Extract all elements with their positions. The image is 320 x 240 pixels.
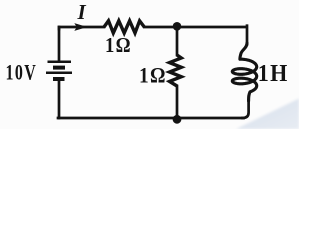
battery V1 long plate 1	[48, 60, 72, 63]
resistor R2 vertical 1ohm zigzag	[170, 55, 182, 86]
svg-text:1Ω: 1Ω	[139, 62, 167, 88]
junction node bottom	[173, 115, 182, 124]
svg-text:10V: 10V	[6, 61, 38, 85]
resistor R top 1ohm zigzag	[104, 21, 144, 33]
svg-text:I: I	[77, 0, 87, 24]
inductor L 1H coil	[232, 43, 256, 101]
wire inductor bottom corner	[243, 100, 249, 118]
wire right branch top	[246, 26, 249, 44]
battery V1 long plate 2	[46, 71, 72, 74]
wire middle branch lower	[176, 86, 179, 118]
wire top left segment	[59, 27, 104, 29]
svg-text:1H: 1H	[258, 60, 289, 87]
wire bottom rail	[58, 117, 244, 120]
battery V1 short plate 2	[53, 77, 65, 81]
wire left branch upper	[58, 27, 61, 61]
current arrow	[74, 23, 87, 31]
wire left branch lower	[58, 80, 61, 118]
svg-text:1Ω: 1Ω	[105, 34, 132, 57]
wire middle branch upper	[176, 27, 179, 55]
battery V1 short plate 1	[53, 66, 65, 70]
corner shading	[236, 99, 299, 130]
junction node top	[173, 22, 182, 31]
wire top middle segment	[144, 26, 246, 29]
